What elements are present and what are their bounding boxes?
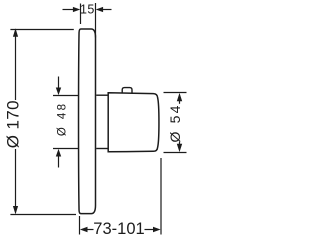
dim O48: bottom arrow	[56, 149, 61, 157]
dim O170: bottom extension line	[10, 214, 76, 216]
dim O48: top arrow	[58, 77, 60, 90]
dim 15: left arrow	[63, 9, 75, 11]
dim O170: dimension line upper segment	[15, 33, 17, 100]
dim 73-101: right extension line	[160, 158, 162, 235]
svg-text:15: 15	[80, 3, 95, 17]
dim 73-101: left extension line	[79, 216, 81, 235]
dim O54: top extension line	[164, 92, 187, 94]
dim O48: top extension line	[53, 95, 78, 97]
sleeve/neck top line	[96, 94, 108, 96]
dim 15: left extension line	[80, 4, 82, 25]
dim O170: bottom arrow	[13, 206, 18, 214]
handle knob body	[108, 93, 159, 152]
svg-text:73-101: 73-101	[93, 220, 144, 238]
dim O54: top arrow	[177, 93, 182, 101]
dim 73-101: right arrow	[153, 227, 161, 232]
svg-text:Ø 170: Ø 170	[3, 100, 22, 148]
dim 15: right arrow	[102, 9, 112, 11]
dim O54: bottom extension line	[164, 152, 187, 154]
escutcheon plate (side view)	[79, 29, 96, 214]
svg-text:Ø 48: Ø 48	[56, 102, 68, 137]
dim O48: bottom extension line	[53, 148, 78, 150]
dim O54: bottom arrow	[177, 144, 182, 152]
safety-stop tab on knob	[122, 88, 132, 93]
dim 73-101: left arrow	[80, 227, 88, 232]
svg-text:Ø 54: Ø 54	[167, 103, 183, 142]
dim 15: right extension line	[95, 3, 97, 38]
dim O170: dimension line lower segment	[15, 149, 17, 210]
dim O170: top arrow	[13, 28, 18, 36]
sleeve/neck bottom line	[96, 148, 108, 150]
dim O170: top extension line	[10, 29, 73, 31]
